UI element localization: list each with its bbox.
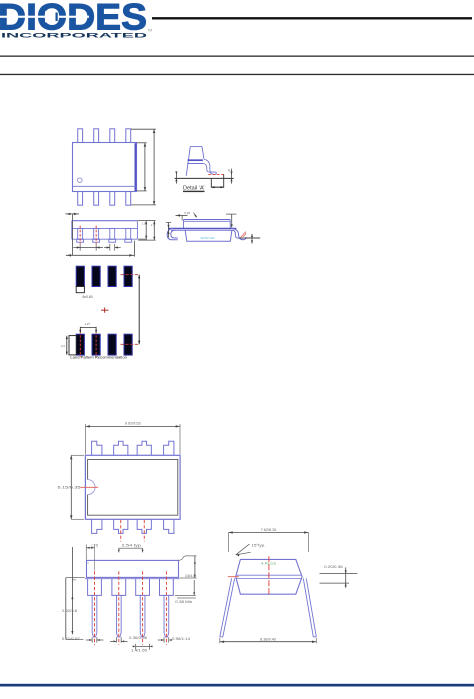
svg-text:R: R [228,168,231,172]
DIP-8 top view: body length dimension 9.02/9.53 [86,421,181,454]
svg-text:15°typ.: 15°typ. [252,543,266,547]
SO-8 top view: package body [73,143,137,192]
Diodes Incorporated logo wordmark [0,0,147,37]
land pattern: pitch dimension bracket [79,322,97,332]
DIP-8 end view: vertical centerline (red) [268,556,270,596]
svg-text:2.54 typ.: 2.54 typ. [122,543,143,547]
svg-text:TM: TM [148,29,153,33]
DIP-8 top view: bottom row pins [92,519,174,533]
SO-8 side view: gauge plane dimension 0.25 [176,211,197,221]
svg-text:1.7: 1.7 [151,223,155,227]
DIP-8 top view: top row pins [92,441,174,455]
SO-8 body right edge thick line [135,143,137,191]
land pattern: red centerline through top pad 4 [121,274,140,276]
DIP-8 end view: left seam centerline (red) [228,576,239,578]
Detail A: seating plane line [175,177,234,179]
DIP-8 end view: row spacing dimension 7.62/8.26 [228,528,308,552]
header thick rule [152,17,472,19]
land pattern: pad height dimension [61,336,68,355]
SO-8 overall width dimension E [131,129,156,205]
svg-text:1.4/1.65: 1.4/1.65 [131,649,147,653]
svg-text:(.77): (.77) [92,543,99,547]
svg-text:INCORPORATED: INCORPORATED [1,32,148,39]
Detail A: body edge profile [186,147,204,176]
SO-8 front view: lead width dimension b [104,244,121,251]
Detail A: thick mold seam lines [188,159,203,161]
SO-8 side view: right gull-wing lead [231,229,246,240]
DIP-8 front view: shoulder line [85,578,180,580]
svg-text:8x0.60: 8x0.60 [83,295,93,299]
land pattern: left pad outline box [69,336,76,355]
DIP-8 front view: lead width dimension 0.71/0.97 (pin 1) [62,637,104,643]
DIP-8 top view: outer body [85,455,180,519]
DIP-8 end view: lead thickness dimension 0.20/0.36 [320,565,358,588]
SO-8 side view: lead upper/lower lines [168,229,236,231]
SO-8 side view: body lower profile [185,230,232,241]
SO-8 side view: left gull-wing lead [167,229,178,240]
SO-8 side view: lead angle marks (red) [241,232,246,238]
SO-8 front view: lead centerlines (red dashed) [80,226,96,244]
svg-text:SEATING PLANE: SEATING PLANE [201,236,215,240]
DIP-8 top view: inner body outline [88,459,178,515]
Detail A: lead foot reference red dashed line [208,173,224,175]
land pattern: red centerline through bottom pad 4 [121,343,140,345]
SO-8 front view: body shoulder line [72,227,138,229]
SO-8 side view: right lead-length dimension [226,214,236,228]
DIP-8 end view: lead span dimension 8.38/9.40 [220,638,316,644]
svg-text:2.92/3.8: 2.92/3.8 [62,609,77,613]
svg-text:0.36/0.56: 0.36/0.56 [129,636,147,640]
DIP-8 front view: dimension 0.77 typ [86,543,98,570]
DIP-8 front view: leads with tapered tips [92,595,169,637]
DIP-8 front view: left overall dimension line [66,578,85,640]
SO-8 front view: leads [77,228,132,242]
SO-8 side view: body top lines [183,220,230,229]
svg-text:0.25: 0.25 [184,211,190,215]
DIP-8 top view: centerlines below pins 2-3 (red dashed) [121,520,145,542]
SO-8 top view: bottom row pins [78,192,131,206]
svg-text:0.38 Min: 0.38 Min [175,600,192,604]
Detail A: caption underline [183,191,205,192]
SO-8 front view: body side edges [72,221,138,240]
Detail A: foot length dimension bracket [211,174,223,188]
svg-text:9.02/9.53: 9.02/9.53 [125,421,141,425]
svg-text:1.5: 1.5 [142,222,146,226]
DIP-8 end view: lead angle note 15 deg [236,543,266,556]
SO-8 front view: pitch dimension e [73,244,103,251]
SO-8 body width dimension E1 [137,143,147,191]
DIP-8 top view: pin-1 end notch arc [88,480,96,495]
SO-8 side view: seating plane extension line [240,234,261,244]
svg-text:2.2: 2.2 [61,344,65,348]
Detail A: gull-wing lead [203,159,216,174]
svg-text:3.6/4.1: 3.6/4.1 [185,574,195,578]
DIP-8 front view: lead thickness dimension 0.36/0.56 (pin 2) [110,636,147,643]
land pattern: top pads [76,266,132,286]
DIP-8 front view: lead shoulders [88,579,174,596]
DIP-8 front view: dimension 2.54 typ [118,543,144,552]
SO-8 pin-1 indicator circle [78,178,83,183]
DIP-8 top view: body width dimension 6.15/6.35 [58,455,85,519]
DIP-8 front view: lead length dimension 2.92/3.8 [62,547,77,634]
svg-text:Land Pattern Recommendation: Land Pattern Recommendation [70,355,127,360]
DIP-8 end view: right lead [303,578,316,637]
header thin rule 2 [0,74,474,75]
footer navy rule [0,684,474,687]
DIP-8 end view: left lead [220,578,235,637]
svg-text:1.27: 1.27 [85,322,91,326]
svg-text:c: c [88,561,90,565]
land pattern: pad-extension outline box [76,287,84,293]
DIP-8 end view: body hexagon [236,559,302,594]
DIP-8 top view: notch centerline (red) [80,486,98,488]
svg-text:8.38/9.40: 8.38/9.40 [260,638,276,642]
SO-8 front view: body bottom line [72,238,138,240]
SO-8 top view: top row pins [78,129,131,143]
DIP-8 front view: lead centerlines (red dashed) [95,571,167,645]
svg-text:6.15/6.35: 6.15/6.35 [58,485,81,489]
land pattern: bottom pads [76,334,132,355]
DIP-8 front view: right body-height dimension [179,556,197,578]
svg-text:0.96/1.14: 0.96/1.14 [172,637,190,641]
SO-8 front view: right-side height dimensions A2 and A [138,221,156,241]
SO-8 front view: body top line [72,220,138,222]
SO-8 body inner bottom line [73,185,136,187]
land pattern: red centerlines through bottom pads 1-2 [80,331,96,357]
svg-text:0.71/0.97: 0.71/0.97 [62,637,80,641]
svg-text:0.20/0.36: 0.20/0.36 [324,565,343,569]
Detail A: right stand-off tick with arrows [228,168,233,183]
SO-8 front view: overall length dimension D [66,241,134,257]
DIP-8 front view: shoulder width dimension 1.4/1.65 (pin 3) [131,644,153,653]
SO-8 side view: left height dimension [166,222,171,237]
DIP-8 front view: right shoulder dimension 0.38 Min [175,580,196,604]
Detail A: left stand-off tick with arrows [175,171,177,183]
svg-text:7.62/8.26: 7.62/8.26 [261,528,277,532]
svg-text:4 PLCS: 4 PLCS [261,562,276,566]
DIP-8 end view: mold seam lines [236,575,302,578]
SO-8 front view: top-left dimension leader [65,213,79,256]
land pattern: center reference red cross [101,308,108,313]
header thin rule 1 [0,56,474,57]
DIP-8 front view: body [87,560,179,577]
DIP-8 front view: shoulder dimension 0.96/1.14 (pin 4) [158,637,191,643]
land pattern: row-spacing dimension line [138,275,140,345]
